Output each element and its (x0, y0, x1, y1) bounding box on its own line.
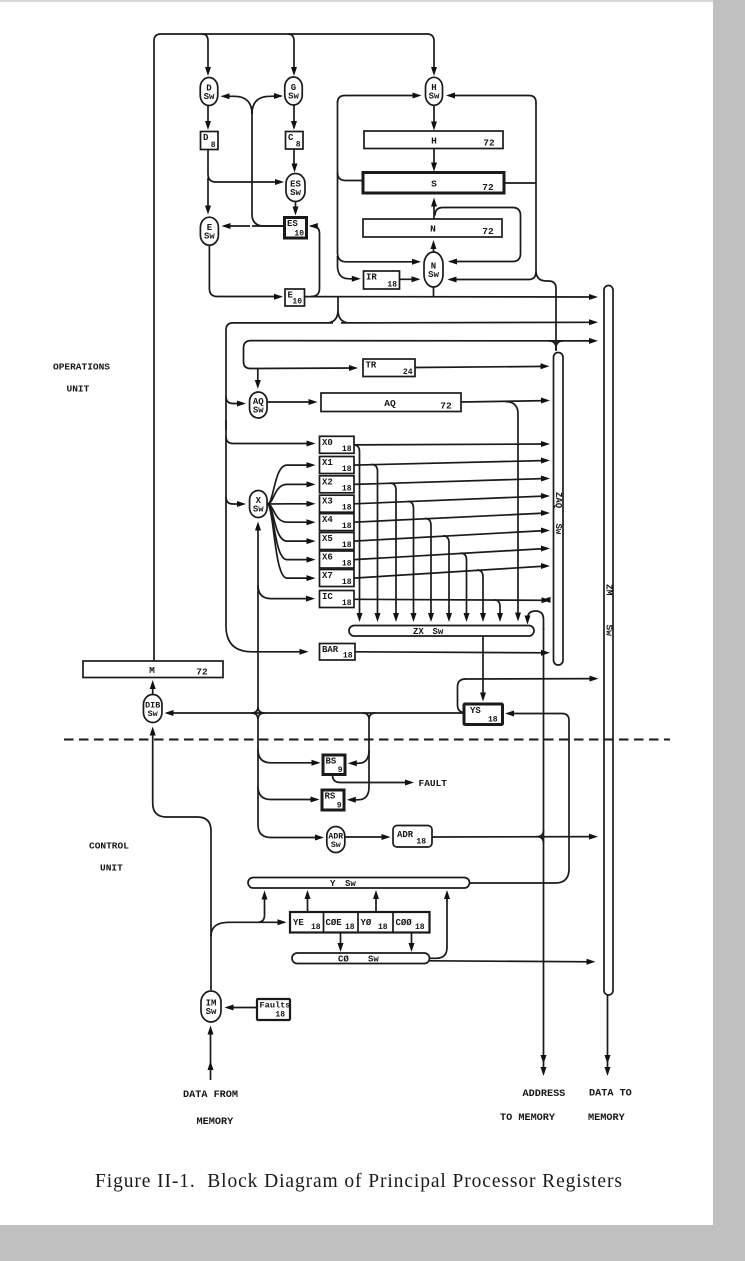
switch ES Sw (286, 174, 305, 202)
wire X Sw fan to X6 (267, 504, 313, 560)
svg-text:ZX: ZX (413, 627, 424, 637)
svg-text:BS: BS (326, 757, 337, 767)
register IR (364, 271, 400, 289)
arrowhead into DIB bottom (150, 727, 156, 736)
arrowhead X5 into ZX (446, 613, 452, 622)
svg-text:IR: IR (366, 273, 377, 283)
arrowhead C0 into Y Sw (444, 890, 450, 899)
wire hang branch RS right (349, 787, 369, 800)
wire loop to H Sw left (338, 96, 420, 104)
wire ES10 left to E Sw (224, 225, 285, 227)
svg-text:CØ: CØ (338, 955, 349, 965)
svg-text:FAULT: FAULT (419, 778, 448, 789)
arrowhead into X Sw bottom (255, 522, 261, 531)
arrowhead into BS right (348, 760, 357, 766)
wire G Sw to C8 (293, 106, 295, 127)
svg-text:Sw: Sw (288, 91, 299, 101)
svg-text:X4: X4 (322, 515, 333, 525)
svg-text:18: 18 (342, 504, 352, 513)
switch AQ Sw (250, 392, 267, 418)
svg-text:18: 18 (342, 445, 352, 454)
arrowhead into Y Sw left (262, 891, 268, 900)
wire bus322 left corner (226, 323, 333, 430)
arrowhead X6 into ZX (464, 613, 470, 622)
svg-text:OPERATIONS: OPERATIONS (53, 362, 110, 373)
arrowhead X4 into ZX (428, 613, 434, 622)
wire bus226 branch X0 (226, 437, 313, 444)
arrowhead into H Sw top (431, 67, 437, 76)
arrowhead into M register bottom (150, 680, 156, 689)
arrowhead IC line into hook bus (542, 597, 551, 603)
switch ZAQ Sw capsule (554, 353, 564, 666)
wire AQ branch down to ZX (505, 402, 518, 617)
svg-text:72: 72 (196, 667, 208, 678)
arrowhead into G Sw top (291, 67, 297, 76)
arrowhead ADR into ZM (589, 834, 598, 840)
arrowhead into X1 left (307, 462, 316, 468)
svg-text:18: 18 (488, 716, 498, 725)
wire C00 down to C0 Sw (411, 933, 413, 949)
wire right loop branch to N Sw (450, 272, 537, 280)
arrowhead address to memory (541, 1055, 547, 1064)
switch C0 Sw capsule (292, 953, 430, 964)
arrowhead into S register top (431, 163, 437, 172)
svg-text:18: 18 (415, 923, 425, 932)
svg-text:72: 72 (482, 226, 494, 237)
wire M register to top bus (154, 34, 434, 661)
svg-text:18: 18 (342, 541, 352, 550)
register ES10 (285, 218, 307, 239)
switch D Sw (200, 78, 218, 106)
switch H Sw (426, 77, 443, 105)
wire X Sw fan to X3 (267, 503, 313, 505)
scanner gray margin bottom (0, 1225, 745, 1261)
wire C0E down to C0 Sw (340, 933, 342, 949)
wire X6 branch down to ZX (461, 553, 467, 617)
arrowhead into AQ Sw top (255, 380, 261, 389)
svg-text:ADDRESS: ADDRESS (523, 1089, 566, 1100)
wire AQ Sw to AQ register (267, 401, 315, 403)
wire address bus vertical (543, 628, 545, 1058)
wire H Sw to H register (433, 106, 435, 127)
register BAR (320, 644, 356, 661)
svg-text:18: 18 (342, 560, 352, 569)
arrowhead AQ branch into ZX (515, 613, 521, 622)
arrowhead into E Sw right (222, 223, 231, 229)
register X5 (320, 533, 355, 550)
svg-text:72: 72 (440, 401, 452, 412)
arrowhead into X2 left (307, 481, 316, 487)
wire ZM to data to memory (607, 996, 609, 1059)
svg-text:Sw: Sw (428, 270, 439, 280)
arrowhead into X5 left (307, 538, 316, 544)
wire X3 out to ZAQ (354, 496, 547, 504)
svg-text:18: 18 (311, 923, 321, 932)
arrowhead X2 into ZX (393, 613, 399, 622)
wire X2 out to ZAQ (354, 479, 547, 485)
arrowhead X0 into ZAQ (541, 441, 550, 447)
register Faults (257, 999, 290, 1020)
dashed unit divider line (64, 739, 670, 741)
svg-text:ADR: ADR (397, 830, 414, 840)
arrowhead X4 into ZAQ (541, 510, 550, 516)
svg-text:Figure II-1. Block Diagram of: Figure II-1. Block Diagram of Principal … (95, 1171, 623, 1192)
wire TR to ZAQ (415, 366, 546, 367)
wire Y Sw loop up to YS (470, 714, 570, 884)
wire D8 line down to E Sw (207, 178, 209, 210)
wire riser x252 ES10-left line (252, 112, 284, 226)
wire DIB to M register (152, 684, 154, 696)
svg-text:X2: X2 (322, 477, 333, 487)
wire right loop to ZAQ feed (536, 271, 556, 351)
wire data arrow segment (607, 1058, 609, 1071)
wire branch to IR (338, 256, 359, 279)
wire X6 out to ZAQ (354, 549, 547, 560)
arrowhead YE into Y Sw (305, 890, 311, 899)
wire ES10 out riser split to G Sw (252, 96, 281, 114)
arrowhead into RS right (347, 797, 356, 803)
register H (364, 131, 503, 149)
wire X Sw fan to X4 (267, 504, 313, 522)
register M (83, 661, 223, 678)
svg-text:18: 18 (343, 652, 353, 661)
arrowhead into BAR left (300, 649, 309, 655)
arrowhead into G Sw left (274, 93, 283, 99)
wire into DIB from right (167, 712, 464, 714)
wire X Sw fan to X7 (267, 504, 313, 578)
wire D Sw to D8 (207, 106, 209, 127)
wire ZX out line y679 to ZM (465, 678, 596, 680)
wire AQ out to ZAQ (461, 401, 547, 402)
wire Faults to IM Sw (227, 1007, 257, 1009)
arrowhead X1 into ZX (375, 613, 381, 622)
register X0 (320, 436, 355, 453)
svg-text:YE: YE (293, 918, 304, 928)
scan edge top (0, 0, 745, 2)
register X4 (320, 514, 355, 531)
arrowhead into N Sw left lower (412, 276, 421, 282)
arrowhead into ES Sw top (292, 164, 298, 173)
svg-text:10: 10 (292, 298, 302, 307)
wire IC branch down to ZX (494, 600, 500, 617)
arrowhead X3 into ZAQ (541, 493, 550, 499)
wire C0 capsule up to Y Sw (430, 894, 447, 959)
wire C0 out to ZM (430, 961, 593, 962)
wire X1 branch down to ZX (372, 465, 378, 618)
svg-text:X6: X6 (322, 553, 333, 563)
arrowhead into YS top (480, 693, 486, 702)
arrowhead into YE left (278, 919, 287, 925)
arrowhead C00 into C0 (409, 943, 415, 952)
wire E Sw loop to E10 (209, 246, 280, 297)
arrowhead into N register bottom (431, 240, 437, 249)
wire N top to S bottom (433, 201, 435, 219)
svg-text:C: C (288, 133, 294, 143)
arrowhead into ADR Sw left (315, 835, 324, 841)
register N (363, 219, 502, 237)
switch IM Sw (201, 991, 221, 1022)
svg-text:18: 18 (416, 838, 426, 847)
wire left loop vertical x337 (338, 101, 419, 262)
switch DIB Sw (143, 695, 162, 723)
arrowhead into X7 left (307, 575, 316, 581)
register X1 (320, 457, 355, 474)
svg-text:Y: Y (330, 879, 336, 889)
wire left distribution drop (252, 713, 322, 838)
wire YE line from IM riser (211, 922, 284, 936)
arrowhead into IM right (225, 1005, 234, 1011)
arrowhead address to memory tip (541, 1067, 547, 1076)
svg-text:X3: X3 (322, 497, 333, 507)
wire branch AQ Sw top (257, 369, 259, 386)
arrowhead into N Sw right lower (448, 277, 457, 283)
wire X0 branch down to ZX (354, 445, 360, 617)
switch X Sw (250, 491, 267, 518)
wire N register inner loop (435, 208, 521, 262)
svg-text:ES: ES (287, 219, 298, 229)
svg-text:ZM: ZM (603, 584, 614, 596)
svg-text:YØ: YØ (361, 918, 372, 928)
arrowhead into ZM from bus322 (589, 319, 598, 325)
arrowhead into RS left (311, 797, 320, 803)
arrowhead X5 into ZAQ (541, 528, 550, 534)
register TR (363, 359, 415, 377)
wire ES10 out riser split to D Sw (224, 96, 252, 114)
svg-text:9: 9 (337, 802, 342, 811)
arrowhead data to memory tip (605, 1067, 611, 1076)
svg-text:DATA FROM: DATA FROM (183, 1090, 238, 1101)
switch E Sw (200, 217, 218, 245)
wire X5 out to ZAQ (354, 531, 547, 542)
svg-text:X0: X0 (322, 438, 333, 448)
arrowhead into TR left (349, 365, 358, 371)
register ADR box (393, 826, 432, 848)
register IC (320, 591, 355, 608)
arrowhead into H Sw right (446, 93, 455, 99)
wire Y0 top to Y Sw (375, 894, 377, 912)
svg-text:MEMORY: MEMORY (588, 1113, 626, 1124)
wire address bus junction flare (537, 830, 544, 843)
svg-text:Sw: Sw (603, 625, 614, 637)
arrowhead into AQ register left (309, 399, 318, 405)
svg-text:Sw: Sw (148, 709, 158, 719)
arrowhead into ES10 right (309, 223, 318, 229)
wire drop branch BS left (258, 750, 318, 763)
svg-text:18: 18 (342, 599, 352, 608)
wire H register to S register (433, 149, 435, 168)
arrowhead into D Sw right (221, 93, 230, 99)
wire hook from address bus into ZX (528, 611, 544, 630)
arrowhead into IR left (352, 276, 361, 282)
arrowhead into YS right (505, 711, 514, 717)
svg-text:TO MEMORY: TO MEMORY (500, 1113, 556, 1124)
svg-text:Sw: Sw (253, 504, 264, 514)
arrowhead into BS left (312, 760, 321, 766)
register row YE C0E Y0 C00 (290, 912, 430, 933)
arrowhead into IM bottom (208, 1026, 214, 1035)
svg-text:MEMORY: MEMORY (197, 1117, 235, 1128)
svg-text:72: 72 (482, 182, 494, 193)
wire branch to S register left (338, 173, 364, 181)
wire DIB line riser to X Sw bottom (252, 526, 265, 713)
wire BAR out to ZAQ (355, 652, 547, 653)
wire TR feed (250, 367, 356, 370)
svg-text:CØE: CØE (326, 918, 343, 928)
svg-text:Sw: Sw (253, 405, 264, 415)
arrowhead data from memory mid (208, 1061, 214, 1070)
wire D8 to ES Sw (208, 150, 281, 182)
wire hang branch BS right (350, 751, 369, 764)
arrowhead into E Sw top (205, 206, 211, 215)
arrowhead Y0 into Y Sw (373, 890, 379, 899)
register S (363, 173, 504, 194)
wire IC out (354, 599, 547, 600)
arrowhead into DIB right (165, 710, 174, 716)
arrowhead data to memory (605, 1055, 611, 1064)
switch ADR Sw (327, 827, 345, 853)
arrowhead into ZM from E10 line (589, 294, 598, 300)
svg-text:TR: TR (366, 361, 377, 371)
svg-text:Sw: Sw (204, 92, 215, 102)
arrowhead into ES Sw left (275, 179, 284, 185)
svg-text:D: D (203, 133, 209, 143)
wire X4 branch down to ZX (425, 519, 431, 618)
svg-text:18: 18 (342, 522, 352, 531)
arrowhead into X Sw left (237, 501, 246, 507)
arrowhead into X4 left (307, 519, 316, 525)
wire Y split stem (329, 297, 347, 323)
wire BS to FAULT (333, 775, 412, 783)
svg-text:8: 8 (296, 141, 301, 150)
wire X0 out to ZAQ (354, 443, 547, 446)
register X2 (320, 476, 355, 493)
scanner gray margin right (713, 0, 745, 1261)
arrowhead X7 into ZAQ (541, 563, 550, 569)
wire y679 hook down to YS left (458, 679, 466, 713)
switch G Sw (285, 77, 303, 105)
arrowhead X0 into ZX (357, 613, 363, 622)
wire bus226 branch X Sw (226, 497, 244, 504)
svg-text:24: 24 (403, 368, 413, 377)
arrowhead into X0 left (307, 441, 316, 447)
svg-text:ZAQ: ZAQ (553, 492, 563, 509)
arrowhead into X3 left (307, 501, 316, 507)
arrowhead into C8 top (291, 121, 297, 130)
svg-text:Sw: Sw (368, 955, 379, 965)
wire YE top to Y Sw (307, 894, 309, 912)
svg-text:Sw: Sw (345, 879, 356, 889)
svg-text:Faults: Faults (260, 1001, 291, 1011)
arrowhead BAR into ZAQ (541, 650, 550, 656)
svg-text:AQ: AQ (384, 398, 396, 409)
svg-text:Sw: Sw (553, 524, 563, 535)
wire IR to N Sw (400, 278, 419, 280)
svg-text:10: 10 (294, 230, 304, 239)
wire X Sw fan to X2 (267, 484, 313, 504)
arrowhead X1 into ZAQ (541, 458, 550, 464)
wire address arrow segment (543, 1058, 545, 1071)
arrowhead into H Sw left (413, 93, 422, 99)
wire H Sw right loop top (449, 96, 537, 271)
svg-text:YS: YS (470, 706, 481, 716)
arrowhead into E10 left (274, 294, 283, 300)
wire ADR Sw to ADR box (345, 836, 388, 838)
arrowhead into N Sw right upper (448, 259, 457, 265)
svg-text:CØØ: CØØ (396, 918, 413, 928)
arrowhead IC branch into ZX (497, 613, 503, 622)
svg-text:CONTROL: CONTROL (89, 841, 129, 852)
svg-text:M: M (149, 665, 155, 676)
svg-text:S: S (431, 178, 437, 189)
wire riser branch to IC (258, 585, 313, 599)
wire E10 output line to ZM (305, 296, 595, 298)
wire E10 to ES10 loop (311, 226, 320, 297)
arrowhead into X6 left (307, 557, 316, 563)
wire S register right join (504, 182, 536, 184)
wire junction x556 flare to ZAQ top (549, 341, 563, 351)
arrowhead y679 into ZM (590, 676, 599, 682)
wire X Sw fan to X5 (267, 504, 313, 541)
switch N Sw (424, 252, 443, 287)
arrowhead X7 into ZX (480, 613, 486, 622)
svg-text:Sw: Sw (290, 188, 301, 198)
svg-text:9: 9 (338, 766, 343, 775)
wire branch top bus to D Sw (202, 34, 208, 72)
wire N Sw bottom junction (433, 288, 435, 297)
wire branch top bus to G Sw (288, 34, 294, 72)
arrowhead IC into ZAQ (542, 597, 551, 603)
svg-text:X7: X7 (322, 571, 333, 581)
register C8 (286, 132, 304, 150)
arrowhead C0E into C0 (338, 943, 344, 952)
svg-text:Sw: Sw (331, 841, 341, 850)
svg-text:RS: RS (325, 792, 336, 802)
wire X Sw fan to X1 (267, 465, 313, 504)
register X7 (320, 570, 355, 587)
wire right hang x369 (363, 713, 376, 787)
arrowhead into ES10 top (293, 207, 299, 216)
arrowhead into D Sw top (205, 67, 211, 76)
wire N Sw to N register (433, 243, 435, 252)
svg-text:IC: IC (322, 592, 333, 602)
arrowhead into H register top (431, 122, 437, 131)
arrowhead X2 into ZAQ (541, 476, 550, 482)
svg-text:BAR: BAR (322, 645, 339, 655)
arrowhead X6 into ZAQ (541, 546, 550, 552)
wire data from memory (210, 1029, 212, 1080)
register AQ (321, 393, 461, 412)
switch Y Sw capsule (248, 878, 470, 889)
arrowhead hook into ZX (525, 616, 531, 625)
wire drop branch RS left (258, 787, 317, 800)
svg-text:X1: X1 (322, 458, 333, 468)
register X3 (320, 495, 355, 512)
svg-text:UNIT: UNIT (67, 384, 90, 395)
arrowhead X3 into ZX (411, 613, 417, 622)
svg-text:18: 18 (387, 281, 397, 290)
svg-text:DATA TO: DATA TO (589, 1089, 632, 1100)
svg-text:Sw: Sw (429, 92, 440, 102)
svg-text:18: 18 (275, 1011, 285, 1020)
svg-text:Sw: Sw (433, 627, 444, 637)
register YS outline (464, 704, 503, 725)
arrowhead FAULT (405, 780, 414, 786)
wire bus226 vertical (226, 420, 306, 652)
register RS (322, 790, 344, 810)
wire YE line branch up to Y Sw (258, 894, 265, 922)
wire ZX out to YS (482, 636, 484, 697)
wire X7 out to ZAQ (354, 566, 547, 578)
